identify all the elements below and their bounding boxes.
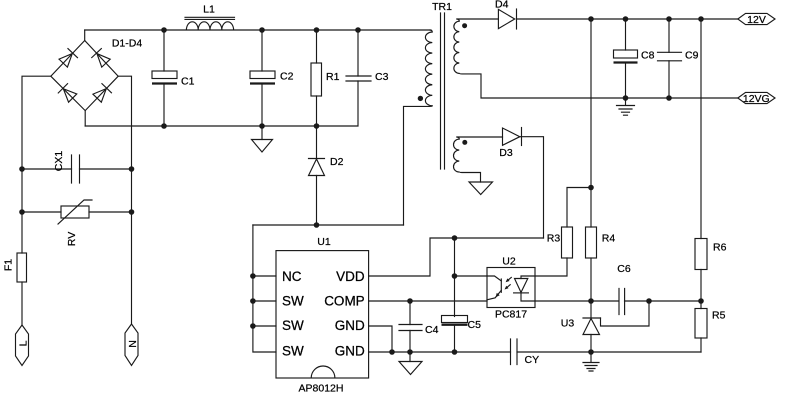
svg-text:U1: U1 [317,236,331,248]
resistor R1 [311,30,340,126]
transformer TR1 primary winding [418,30,433,106]
svg-text:C4: C4 [425,324,439,336]
capacitor C9 [658,19,699,98]
resistor R5 [695,301,726,352]
diode D4 [495,0,517,29]
node R1 top junction [314,27,320,33]
wire secondary bottom to 12VG rail [459,73,738,98]
wire to U2 pin1 [455,275,488,277]
svg-text:SW: SW [282,318,304,333]
varistor RV [22,200,132,246]
node R3-R4 top junction [588,185,594,191]
ground under C4 [399,352,422,375]
svg-text:L1: L1 [203,4,215,16]
wire D3 to supply node [520,137,544,238]
wire secondary top to D4 [457,18,499,20]
node C4 top junction [407,298,413,304]
inductor L1 [185,4,235,31]
wire bridge top to rail [84,30,86,41]
svg-text:D4: D4 [495,0,509,11]
svg-text:NC: NC [282,269,302,284]
wire 12V rail [517,18,738,20]
wire primary bottom to SW node [404,106,433,225]
connector N [125,324,139,366]
svg-text:VDD: VDD [336,269,365,284]
capacitor C1 [152,30,195,126]
wire GND pin3 drop [369,326,392,352]
capacitor C3 [317,30,389,126]
diode D3 [499,128,521,160]
wire top rail [85,29,431,31]
ground under U3 [583,352,599,371]
node NC junction [250,273,256,279]
wire aux top to D3 [457,136,503,138]
wire bridge left to L line [22,76,51,253]
svg-text:F1: F1 [3,259,15,271]
svg-text:N: N [127,340,139,348]
node RV-N junction [129,209,135,215]
ground under C8 [617,98,635,115]
svg-text:L: L [18,340,30,346]
svg-text:C6: C6 [617,263,631,275]
connector L [16,325,30,366]
node C8 bottom junction [623,95,629,101]
ground under aux winding [469,182,493,195]
node R4 bottom junction [588,298,594,304]
wire SW pin stub 3 [253,325,276,327]
node SW junction 2 [250,298,256,304]
capacitor CX1 [22,151,132,183]
optocoupler U2 PC817 [487,256,535,321]
svg-text:COMP: COMP [324,294,365,309]
wire U3 cathode to C6 right [601,301,650,326]
node C1 bottom junction [161,123,167,129]
capacitor CY [511,339,540,366]
node U3 anode junction [588,349,594,355]
bridge rectifier D1-D4 [51,38,143,111]
svg-text:D2: D2 [330,156,344,168]
wire SW pin stub 2 [253,300,276,302]
ground under C2 [252,126,273,152]
node C2 top junction [259,27,265,33]
transformer TR1 core [432,1,452,169]
resistor R6 [695,19,727,301]
svg-text:R4: R4 [602,233,616,245]
svg-text:D1-D4: D1-D4 [112,38,143,50]
wire F1 to L connector [21,282,23,325]
node 12V sense junction [588,16,594,22]
wire bottom rail [85,125,316,127]
svg-text:RV: RV [66,232,78,246]
diode D2 [309,126,344,225]
diode D3b [58,84,77,103]
op-amp U1 AP8012H [276,236,369,395]
wire 12V sense drop [590,19,592,227]
svg-text:C8: C8 [641,50,655,62]
svg-text:C9: C9 [685,50,699,62]
wire VDD pin to supply node [369,238,544,276]
svg-text:12VG: 12VG [743,93,770,105]
svg-text:U2: U2 [502,256,516,268]
node C2 bottom junction [259,123,265,129]
svg-text:CY: CY [525,354,540,366]
node CX1-L junction [19,166,25,172]
diode D4b [92,84,111,103]
fuse F1 [3,253,27,282]
wire supply node down to C5 [454,238,456,317]
node C9 bottom junction [666,95,672,101]
svg-text:D3: D3 [499,147,513,159]
wire bridge bottom to bottom rail [84,111,86,126]
node C5 bottom junction [452,349,458,355]
node SW junction 3 [250,323,256,329]
svg-text:R6: R6 [713,242,727,254]
node CX1-N junction [129,166,135,172]
resistor R3 [547,188,591,259]
node C8 top junction [623,16,629,22]
node U2 branch junction [452,273,458,279]
capacitor C4 [399,301,439,352]
svg-text:U3: U3 [561,318,575,330]
svg-text:C1: C1 [181,76,195,88]
svg-text:SW: SW [282,344,304,359]
transformer TR1 aux winding [453,137,467,172]
node C4 bottom junction [407,349,413,355]
node D2 SW junction [314,222,320,228]
wire SW node horizontal [253,224,404,226]
svg-text:PC817: PC817 [495,309,527,321]
node R6-R5 junction [698,298,704,304]
resistor R4 [586,227,616,301]
connector 12V [738,13,775,25]
node VDD supply junction [452,235,458,241]
svg-text:AP8012H: AP8012H [299,383,344,395]
wire GND bottom line left [369,351,511,353]
svg-text:R3: R3 [547,233,561,245]
transformer TR1 secondary winding [454,19,467,73]
svg-text:C3: C3 [375,71,389,83]
node C9 top junction [666,16,672,22]
wire NC pin stub [253,275,276,277]
wire aux bottom to ground [459,172,480,182]
svg-text:SW: SW [282,294,304,309]
svg-text:R5: R5 [712,310,726,322]
node R1 bottom junction [314,123,320,129]
svg-text:TR1: TR1 [432,1,452,13]
node GND3 junction [389,349,395,355]
svg-text:12V: 12V [747,14,766,26]
node C6 right junction [646,298,652,304]
svg-text:GND: GND [335,318,365,333]
wire U2 pin3 to divider line [535,300,619,302]
diode D2b [92,49,111,68]
node C3 top junction [355,27,361,33]
svg-text:C5: C5 [468,319,482,331]
wire U2 pin4 to R3 [535,258,567,276]
svg-text:GND: GND [335,344,365,359]
node C1 top junction [161,27,167,33]
diode D1 [58,49,77,68]
svg-text:R1: R1 [326,71,340,83]
node R6 top junction [698,16,704,22]
capacitor C8 [614,19,655,98]
wire COMP to U2 pin2 [369,300,487,302]
capacitor C6 [617,263,701,315]
wire GND bottom line right [517,351,701,353]
zener U3 [561,301,601,352]
capacitor C5 [442,316,482,353]
svg-text:CX1: CX1 [53,151,65,172]
node RV-L junction [19,209,25,215]
capacitor C2 [250,30,294,126]
wire bridge right to N line [118,76,131,324]
connector 12VG [738,92,775,104]
wire SW pins vertical [253,225,276,352]
svg-text:C2: C2 [280,71,294,83]
